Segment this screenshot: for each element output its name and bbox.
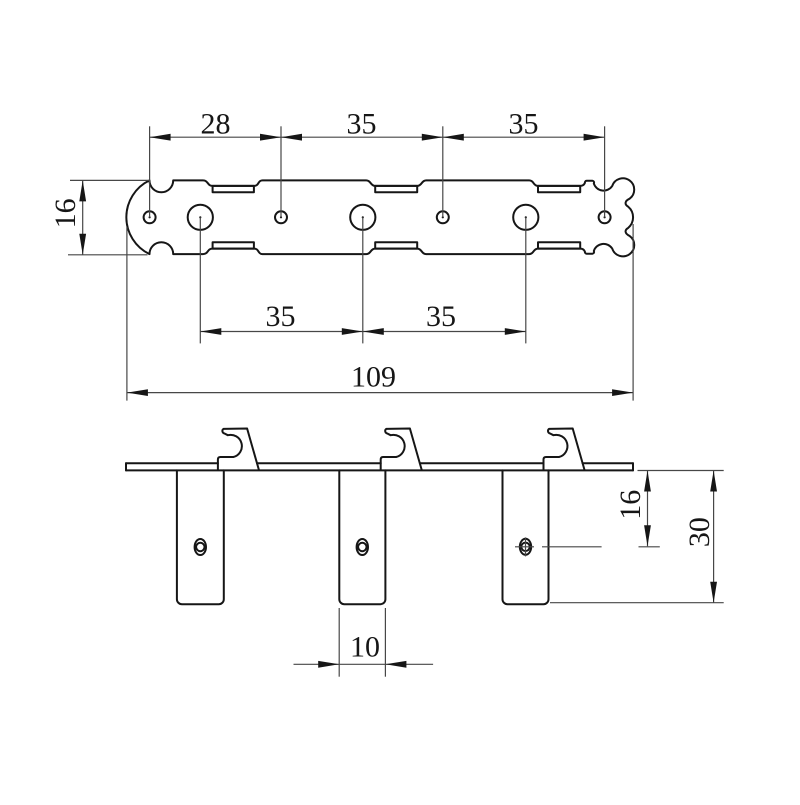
arrowheads <box>79 134 717 668</box>
right 30 arrows <box>710 471 717 492</box>
post 1 <box>177 470 224 604</box>
svg-text:16: 16 <box>614 490 647 520</box>
bearing slot rect bottom 2 <box>375 242 417 248</box>
10 extension lines <box>338 608 340 677</box>
middle dimension line <box>200 331 526 333</box>
svg-text:30: 30 <box>683 517 716 547</box>
svg-text:16: 16 <box>49 198 82 228</box>
109 extension lines <box>126 227 128 401</box>
109 dimension line <box>127 392 633 394</box>
hook 3 <box>544 429 585 470</box>
right 16 dimension line <box>647 471 649 547</box>
screw hole 2 small <box>275 211 287 223</box>
10 dimension line <box>294 663 434 665</box>
screw hole 1 small <box>144 211 156 223</box>
bar bottom line <box>126 469 633 471</box>
roller hole 2 large <box>350 205 375 230</box>
screw hole 3 small <box>437 211 449 223</box>
svg-text:35: 35 <box>509 108 539 141</box>
bar right cap <box>632 463 634 470</box>
svg-text:28: 28 <box>201 108 231 141</box>
svg-text:10: 10 <box>350 631 380 664</box>
bearing slot rect bottom 1 <box>213 242 254 248</box>
roller hole 1 large <box>188 205 213 230</box>
screw hole 4 small <box>599 211 611 223</box>
top row arrows <box>150 134 171 141</box>
roller hole 3 large <box>513 205 538 230</box>
109 arrows <box>127 389 148 396</box>
right 16/30 top reference line <box>638 470 724 472</box>
svg-text:35: 35 <box>426 300 456 333</box>
post slot 3 <box>520 539 531 555</box>
post 2 <box>339 470 385 604</box>
post 3 <box>503 470 549 604</box>
top dimension line <box>150 136 605 138</box>
bearing slot rect bottom 3 <box>538 242 580 248</box>
extension lines from small holes up <box>149 126 151 217</box>
middle row arrows <box>200 328 221 335</box>
svg-text:109: 109 <box>351 360 396 393</box>
extension lines from big holes down <box>199 217 201 343</box>
bearing slot rect top 3 <box>538 186 580 192</box>
bar top line segments <box>126 462 633 464</box>
post slot 2 <box>357 539 368 555</box>
left 16 extension lines <box>70 179 150 181</box>
left 16 dimension line <box>82 180 84 254</box>
bearing slot rect top 2 <box>375 186 417 192</box>
svg-text:35: 35 <box>266 300 296 333</box>
hole center dots <box>149 216 151 218</box>
post slot 1 <box>195 539 206 555</box>
right 30 dimension line <box>713 471 715 603</box>
10 arrows (outside) <box>318 661 339 668</box>
plate outline (top view) <box>126 178 634 256</box>
slot leader line <box>542 546 602 548</box>
slot 3 crosshair <box>515 546 534 548</box>
bearing slot rect top 1 <box>213 186 254 192</box>
bar left cap <box>125 463 127 470</box>
left 16 arrows <box>79 180 86 201</box>
hook 2 <box>381 429 422 470</box>
svg-text:35: 35 <box>347 108 377 141</box>
hook 1 <box>218 429 259 470</box>
right 30 bottom reference line <box>550 602 724 604</box>
right 16 arrows <box>644 471 651 492</box>
